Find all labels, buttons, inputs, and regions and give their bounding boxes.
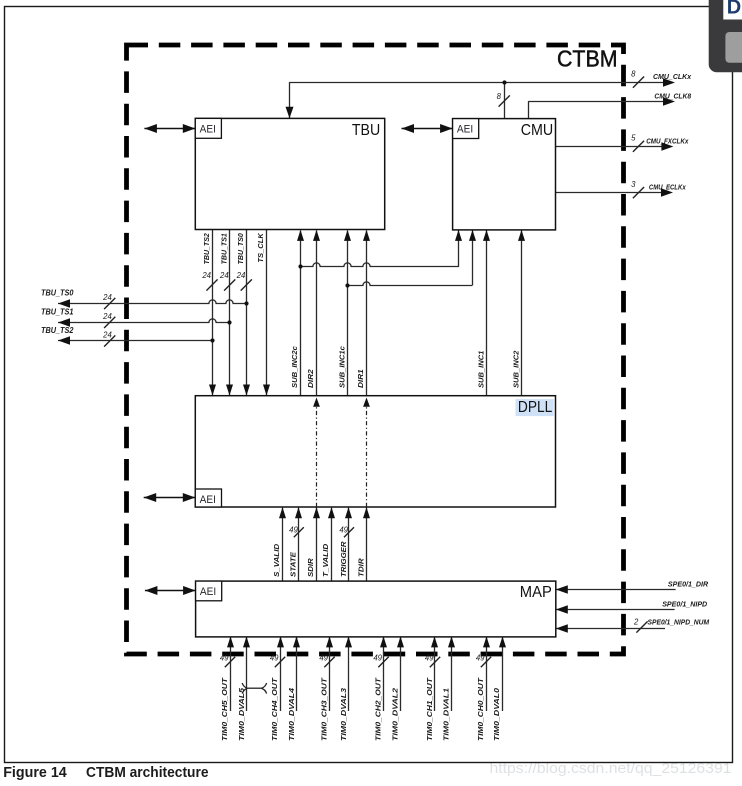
widget gray button [725,32,742,63]
arrow CMU_CLKx output [663,78,675,87]
svg-text:TDIR: TDIR [357,558,366,577]
svg-text:SPE0/1_NIPD_NUM: SPE0/1_NIPD_NUM [648,617,710,626]
node junction on clock wire [504,82,506,119]
wire TIM0_CH3_OUT into MAP [329,637,331,711]
svg-text:8: 8 [497,92,502,101]
svg-text:SUB_INC1c: SUB_INC1c [338,345,347,388]
wire SUB_INC2c branch to CMU [300,263,458,267]
svg-text:AEI: AEI [457,124,473,136]
svg-text:5: 5 [631,134,636,143]
wire SUB_INC1c DPLL to TBU [347,231,349,396]
wire TIM0_CH5_OUT into MAP [230,637,232,711]
svg-text:DIR1: DIR1 [356,369,365,388]
bus width 8 at border exit [633,77,644,88]
svg-text:TIM0_CH1_OUT: TIM0_CH1_OUT [425,677,434,741]
AEI bidirectional arrow CMU [402,128,453,130]
bus width 8 at CMU top [499,95,510,106]
svg-text:Figure 14: Figure 14 [3,765,67,781]
bus width 24 [206,279,217,290]
bus width 49 on TIM0_CH1_OUT [430,657,440,667]
wire TIM0_CH1_OUT into MAP [434,637,436,711]
bus width 49 on TIM0_CH2_OUT [378,657,388,667]
svg-text:49: 49 [339,525,348,534]
svg-text:24: 24 [102,293,112,302]
wire TIM0_DVAL0 into MAP [502,637,504,711]
crossing symbol on TIM0_DVAL5 [247,687,262,689]
svg-text:24: 24 [201,271,211,280]
svg-text:24: 24 [102,312,112,321]
bus width 49 on STATE [294,527,304,537]
svg-text:2: 2 [633,618,639,627]
wire SPE0/1_NIPD [556,609,675,611]
wire SUB_INC2 DPLL to CMU [521,231,523,396]
bus width 49 on TIM0_CH0_OUT [481,657,491,667]
svg-text:CMU_CLKx: CMU_CLKx [653,72,692,81]
svg-text:T_VALID: T_VALID [321,543,330,577]
wire T_VALID MAP to DPLL [331,508,333,581]
svg-text:SUB_INC2c: SUB_INC2c [290,345,299,388]
arrow into TBU top [286,107,294,119]
wire TIM0_DVAL1 into MAP [451,637,453,711]
block DPLL [195,396,555,507]
svg-text:TIM0_DVAL0: TIM0_DVAL0 [492,687,501,741]
bus width 49 on TIM0_CH4_OUT [275,657,285,667]
svg-text:AEI: AEI [200,123,216,135]
wire CMU_CLKx top [290,82,664,84]
DPLL highlighted label [516,399,554,416]
svg-text:TIM0_DVAL3: TIM0_DVAL3 [339,687,348,741]
arrow CMU_CLK8 output [663,97,675,106]
svg-text:SPE0/1_NIPD: SPE0/1_NIPD [662,600,707,609]
svg-text:49: 49 [373,654,382,663]
bus width 24 [224,279,235,290]
bus width 49 on TRIGGER [344,527,354,537]
svg-text:SPE0/1_DIR: SPE0/1_DIR [668,580,709,589]
svg-text:AEI: AEI [200,586,216,598]
svg-text:TIM0_DVAL1: TIM0_DVAL1 [441,688,450,741]
svg-text:49: 49 [270,654,279,663]
svg-text:CMU_CLK8: CMU_CLK8 [654,91,691,100]
svg-text:49: 49 [289,525,298,534]
svg-text:TBU_TS1: TBU_TS1 [220,233,229,264]
AEI bidirectional arrow MAP [145,590,196,592]
svg-text:3: 3 [631,180,636,189]
block TBU [195,118,384,229]
wire CMU_CLK8 [528,101,663,103]
svg-text:S_VALID: S_VALID [272,543,281,577]
svg-text:SDIR: SDIR [306,558,315,577]
wire SPE0/1_NIPD_NUM [556,628,665,630]
wire DIR2 DPLL to TBU [316,231,318,396]
wire S_VALID MAP to DPLL [282,508,284,581]
AEI bidirectional arrow DPLL [144,497,196,499]
svg-text:TIM0_CH3_OUT: TIM0_CH3_OUT [319,677,328,741]
svg-text:DIR2: DIR2 [306,369,315,388]
svg-text:TIM0_DVAL5: TIM0_DVAL5 [237,687,246,741]
AEI port box DPLL [195,489,221,507]
svg-text:TBU_TS0: TBU_TS0 [41,289,74,298]
arrow CMU_FXCLKx output [661,142,673,151]
svg-text:TIM0_CH5_OUT: TIM0_CH5_OUT [220,677,229,741]
bus width 49 on TIM0_CH5_OUT [225,657,235,667]
wire TIM0_DVAL4 into MAP [296,637,298,711]
internal dash-dot DIR1 path [366,407,368,507]
browser widget top right [709,0,742,72]
svg-text:49: 49 [220,654,229,663]
svg-text:DR: DR [727,0,742,19]
bus width 49 on TIM0_CH3_OUT [324,657,334,667]
arrow CMU_ECLKx output [661,188,673,197]
svg-text:49: 49 [425,654,434,663]
wire TIM0_DVAL2 into MAP [400,637,402,711]
internal dash-dot DIR2 path [316,407,318,507]
svg-text:TBU: TBU [352,122,380,139]
wire TIM0_CH4_OUT into MAP [280,637,282,711]
wire TBU_TS0 TBU to DPLL [246,230,248,396]
wire SUB_INC1 DPLL to CMU [486,231,488,396]
svg-text:SUB_INC2: SUB_INC2 [511,350,520,388]
AEI port box MAP [196,581,222,601]
wire TRIGGER MAP to DPLL [348,508,350,581]
wire SUB_INC2c DPLL to TBU [300,231,302,396]
svg-text:SUB_INC1: SUB_INC1 [476,351,485,388]
svg-text:24: 24 [102,331,112,340]
svg-text:CTBM: CTBM [557,45,618,71]
wire TIM0_CH2_OUT into MAP [383,637,385,711]
wire DIR1 DPLL to TBU [366,231,368,396]
svg-text:TIM0_DVAL2: TIM0_DVAL2 [390,687,399,741]
svg-text:TIM0_CH4_OUT: TIM0_CH4_OUT [270,677,279,741]
block MAP [196,581,556,637]
svg-text:CMU_ECLKx: CMU_ECLKx [649,183,686,192]
CTBM dashed boundary [127,45,624,654]
svg-text:TBU_TS2: TBU_TS2 [41,326,74,335]
AEI port box CMU [453,119,479,139]
wire TBU_TS0 output [58,300,246,304]
svg-text:TIM0_CH0_OUT: TIM0_CH0_OUT [476,677,485,741]
wire SUB_INC1c branch to CMU [348,282,473,286]
AEI port box TBU [195,118,221,138]
svg-text:AEI: AEI [200,494,216,506]
svg-text:24: 24 [219,271,229,280]
AEI bidirectional arrow TBU [144,128,195,130]
wire STATE MAP to DPLL [298,508,300,581]
svg-text:MAP: MAP [520,584,552,601]
svg-text:TBU_TS0: TBU_TS0 [236,233,245,265]
svg-text:TRIGGER: TRIGGER [339,541,348,577]
wire TBU_TS1 TBU to DPLL [229,230,231,396]
wire TBU_TS2 output [58,340,212,342]
bus width 24 [241,279,252,290]
block CMU [453,119,556,230]
svg-text:DPLL: DPLL [518,399,552,416]
widget logo box [723,0,742,20]
svg-text:TBU_TS2: TBU_TS2 [202,233,211,265]
wire SPE0/1_DIR [556,589,676,591]
svg-text:8: 8 [631,70,636,79]
wire CMU_ECLKx [556,192,662,194]
wire TBU_TS2 TBU to DPLL [212,230,214,396]
wire TDIR MAP to DPLL [366,508,368,581]
wire TS_CLK TBU to DPLL [266,230,268,396]
wire SDIR MAP to DPLL [316,508,318,581]
wire TIM0_CH0_OUT into MAP [486,637,488,711]
svg-text:TIM0_CH2_OUT: TIM0_CH2_OUT [373,677,382,741]
svg-text:49: 49 [476,654,485,663]
svg-text:CMU_FXCLKx: CMU_FXCLKx [646,136,689,145]
svg-text:CMU: CMU [521,122,554,139]
wire TIM0_DVAL5 into MAP [246,637,248,711]
wire TIM0_DVAL3 into MAP [348,637,350,711]
svg-text:STATE: STATE [289,551,298,577]
svg-text:49: 49 [319,654,328,663]
wire CMU_FXCLKx [556,146,662,148]
svg-text:TS_CLK: TS_CLK [256,232,265,263]
svg-text:24: 24 [236,271,246,280]
svg-text:TBU_TS1: TBU_TS1 [41,308,73,317]
wire TBU_TS1 output [58,319,230,323]
svg-text:CTBM architecture: CTBM architecture [86,765,209,781]
svg-text:TIM0_DVAL4: TIM0_DVAL4 [287,687,296,741]
